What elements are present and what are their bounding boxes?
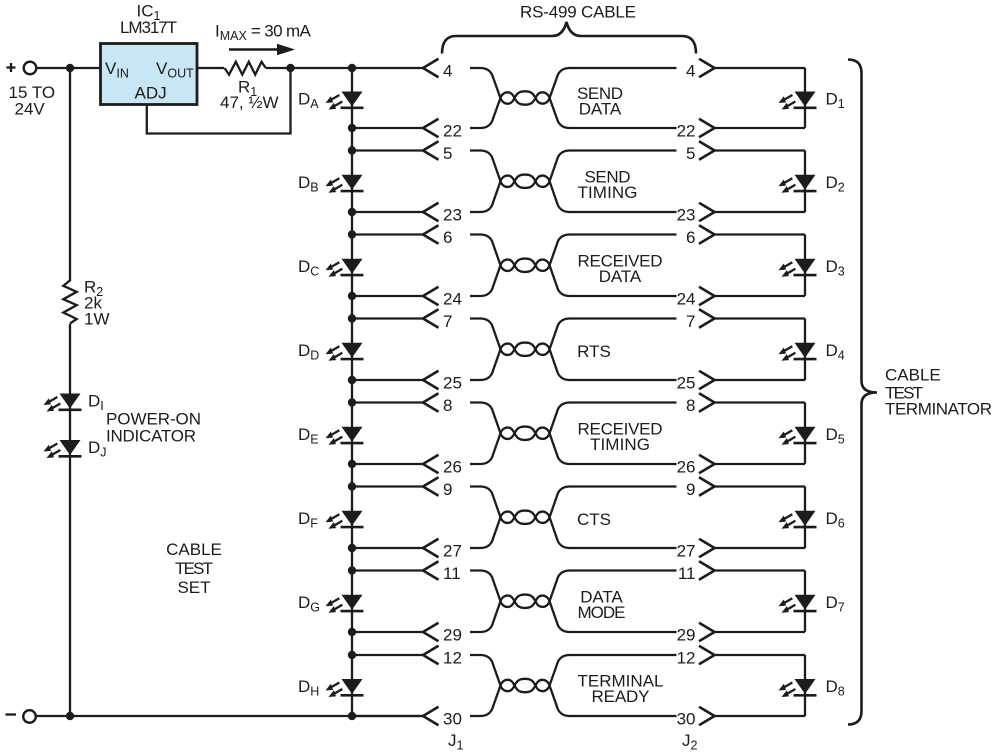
connector J1 pin 9 arrow	[423, 477, 439, 495]
node bus pin 4	[348, 64, 356, 72]
connector J2 pin 27 arrow	[699, 539, 715, 557]
svg-text:READY: READY	[592, 687, 650, 706]
wire J2 pin 22 to terminator	[714, 127, 805, 129]
svg-text:D3: D3	[826, 257, 845, 279]
svg-text:7: 7	[443, 312, 452, 331]
connector J1 pin 29 arrow	[423, 623, 439, 641]
wire J1 pin 22	[352, 127, 423, 129]
svg-text:8: 8	[443, 396, 452, 415]
svg-text:DE: DE	[298, 425, 319, 447]
connector J2 pin 5 arrow	[699, 141, 715, 159]
LED DE	[324, 427, 364, 448]
node bus pin 8	[348, 398, 356, 406]
svg-text:IMAX = 30 mA: IMAX = 30 mA	[215, 22, 311, 44]
brace CABLE TEST TERMINATOR	[848, 60, 877, 725]
node bus pin 25	[348, 376, 356, 384]
svg-text:SET: SET	[177, 578, 210, 597]
svg-text:DA: DA	[298, 90, 319, 112]
label channel 8 TERMINAL READY	[578, 672, 664, 707]
wire J2 pin 7 to terminator	[714, 317, 805, 319]
wire to J2 pin 5	[569, 149, 677, 151]
wire terminator vertical channel 6	[804, 487, 806, 549]
node bus pin 22	[348, 124, 356, 132]
svg-text:J2: J2	[682, 731, 698, 753]
LED DG	[324, 595, 364, 616]
svg-text:CABLE: CABLE	[166, 540, 222, 559]
svg-text:8: 8	[686, 396, 695, 415]
svg-text:ADJ: ADJ	[135, 84, 167, 103]
wire to J2 pin 23	[569, 211, 677, 213]
svg-text:D1: D1	[826, 90, 845, 112]
wire J2 pin 8 to terminator	[714, 401, 805, 403]
svg-text:LM317T: LM317T	[120, 18, 177, 37]
connector J2 pin 11 arrow	[699, 561, 715, 579]
wire J1 pin 11	[352, 569, 423, 571]
LED DC	[324, 259, 364, 280]
connector J1 pin 4 arrow	[423, 59, 439, 77]
connector J2 pin 9 arrow	[699, 477, 715, 495]
svg-text:DF: DF	[298, 509, 318, 531]
LED DI	[42, 394, 82, 415]
connector J1 pin 27 arrow	[423, 539, 439, 557]
connector J1 pin 26 arrow	[423, 455, 439, 473]
svg-text:RTS: RTS	[577, 342, 611, 361]
wire J2 pin 26 to terminator	[714, 463, 805, 465]
connector J2 pin 24 arrow	[699, 287, 715, 305]
LED DA	[324, 92, 364, 113]
wire J1 pin 9	[352, 485, 423, 487]
LED DH	[324, 679, 364, 700]
label channel 2 SEND TIMING	[578, 167, 638, 202]
wire bottom return	[36, 715, 423, 717]
svg-text:23: 23	[677, 205, 696, 224]
svg-text:4: 4	[686, 61, 695, 80]
wire J2 pin 27 to terminator	[714, 547, 805, 549]
svg-text:INDICATOR: INDICATOR	[106, 427, 196, 446]
wire J2 pin 5 to terminator	[714, 149, 805, 151]
connector J2 pin 26 arrow	[699, 455, 715, 473]
wire J1 pin 7	[352, 317, 423, 319]
svg-text:D7: D7	[826, 593, 845, 615]
wire J2 pin 11 to terminator	[714, 569, 805, 571]
svg-text:24: 24	[443, 289, 462, 308]
svg-text:7: 7	[686, 312, 695, 331]
wire twisted pair channel 4	[470, 319, 570, 381]
svg-text:TIMING: TIMING	[578, 183, 638, 202]
op-amp regulator IC1 LM317T box	[101, 44, 198, 105]
node bus pin 24	[348, 292, 356, 300]
svg-text:D5: D5	[826, 425, 845, 447]
connector J1 pin 12 arrow	[423, 646, 439, 664]
wire J2 pin 24 to terminator	[714, 295, 805, 297]
node bottom rail junction	[66, 712, 74, 720]
wire J1 pin 4	[352, 67, 423, 69]
svg-text:5: 5	[443, 144, 452, 163]
wire IC VOUT to R1	[197, 67, 224, 69]
LED DD	[324, 343, 364, 364]
wire to J2 pin 6	[569, 233, 677, 235]
LED D7	[777, 595, 817, 616]
svg-text:DATA: DATA	[579, 100, 622, 119]
wire to J2 pin 8	[569, 401, 677, 403]
terminal minus (input -)	[6, 710, 36, 723]
svg-text:27: 27	[443, 541, 462, 560]
wire J2 pin 30 to terminator	[714, 715, 805, 717]
wire twisted pair channel 7	[470, 571, 570, 633]
terminal plus (input +)	[7, 62, 37, 75]
connector J2 pin 12 arrow	[699, 646, 715, 664]
wire J2 pin 4 to terminator	[714, 67, 805, 69]
svg-text:TERMINATOR: TERMINATOR	[885, 400, 992, 419]
svg-text:DATA: DATA	[599, 267, 642, 286]
svg-text:DC: DC	[298, 257, 319, 279]
node bus pin 6	[348, 230, 356, 238]
wire R1 to LED bus	[266, 67, 352, 69]
current direction arrow	[229, 44, 295, 55]
wire to J2 pin 26	[569, 463, 677, 465]
wire terminator vertical channel 7	[804, 571, 806, 633]
connector J2 pin 25 arrow	[699, 371, 715, 389]
resistor R2 zigzag	[63, 280, 76, 323]
wire J1 pin 26	[352, 463, 423, 465]
label CABLE TEST SET	[166, 540, 222, 597]
connector J1 pin 5 arrow	[423, 141, 439, 159]
connector J1 pin 22 arrow	[423, 119, 439, 137]
wire to J2 pin 7	[569, 317, 677, 319]
svg-text:DJ: DJ	[88, 438, 107, 460]
label channel 3 RECEIVED DATA	[578, 251, 663, 286]
svg-text:DD: DD	[298, 341, 319, 363]
resistor R1 zigzag	[225, 62, 266, 75]
svg-text:29: 29	[443, 625, 462, 644]
brace RS-499 CABLE	[442, 22, 696, 54]
wire to J2 pin 25	[569, 379, 677, 381]
wire J2 pin 25 to terminator	[714, 379, 805, 381]
wire J2 pin 9 to terminator	[714, 485, 805, 487]
label CABLE TEST TERMINATOR	[885, 366, 992, 419]
svg-text:4: 4	[443, 61, 452, 80]
svg-text:25: 25	[443, 373, 462, 392]
wire left rail lower	[69, 324, 71, 716]
node bus pin 26	[348, 460, 356, 468]
wire to J2 pin 27	[569, 547, 677, 549]
label 15 TO 24V	[9, 83, 56, 119]
LED D8	[777, 679, 817, 700]
node bus pin 23	[348, 208, 356, 216]
svg-text:DB: DB	[298, 173, 319, 195]
svg-text:47, ½W: 47, ½W	[220, 93, 279, 112]
svg-text:23: 23	[443, 205, 462, 224]
node bus pin 27	[348, 544, 356, 552]
wire to J2 pin 22	[569, 127, 677, 129]
node bus pin 11	[348, 566, 356, 574]
wire to J2 pin 30	[569, 715, 677, 717]
wire to J2 pin 9	[569, 485, 677, 487]
wire J1 pin 30	[352, 715, 423, 717]
wire J1 pin 29	[352, 631, 423, 633]
label POWER-ON INDICATOR	[106, 410, 201, 446]
node bus pin 9	[348, 482, 356, 490]
wire J1 pin 27	[352, 547, 423, 549]
connector J2 pin 30 arrow	[699, 707, 715, 725]
svg-text:6: 6	[443, 228, 452, 247]
LED D5	[777, 427, 817, 448]
node ADJ feedback junction	[286, 64, 294, 72]
label channel 5 RECEIVED TIMING	[578, 419, 663, 454]
node bus pin 12	[348, 651, 356, 659]
wire terminator vertical channel 4	[804, 319, 806, 381]
label R2 2k 1W	[84, 278, 110, 329]
LED D4	[777, 343, 817, 364]
svg-text:CABLE: CABLE	[885, 366, 941, 385]
wire J2 pin 6 to terminator	[714, 233, 805, 235]
connector J1 pin 24 arrow	[423, 287, 439, 305]
wire LED bus vertical J1	[351, 68, 353, 716]
svg-text:26: 26	[443, 457, 462, 476]
svg-text:22: 22	[677, 121, 696, 140]
svg-text:11: 11	[443, 564, 461, 583]
wire twisted pair channel 6	[470, 487, 570, 549]
connector J1 pin 11 arrow	[423, 561, 439, 579]
svg-text:DG: DG	[298, 593, 320, 615]
svg-text:27: 27	[677, 541, 696, 560]
LED D2	[777, 175, 817, 196]
node supply/rail junction	[66, 64, 74, 72]
wire J2 pin 12 to terminator	[714, 654, 805, 656]
svg-text:D8: D8	[826, 677, 845, 699]
wire supply input to IC VIN	[37, 67, 100, 69]
LED D6	[777, 511, 817, 532]
svg-text:1W: 1W	[84, 310, 110, 329]
svg-text:9: 9	[443, 480, 452, 499]
svg-text:24V: 24V	[15, 100, 46, 119]
svg-text:D2: D2	[826, 173, 845, 195]
wire twisted pair channel 3	[470, 235, 570, 297]
svg-text:J1: J1	[448, 731, 464, 753]
wire J1 pin 12	[352, 654, 423, 656]
svg-text:22: 22	[443, 121, 462, 140]
svg-text:25: 25	[677, 373, 696, 392]
svg-text:TIMING: TIMING	[590, 435, 650, 454]
LED DF	[324, 511, 364, 532]
connector J2 pin 4 arrow	[699, 59, 715, 77]
wire terminator vertical channel 2	[804, 151, 806, 213]
wire left rail	[69, 68, 71, 281]
label channel 1 SEND DATA	[577, 84, 623, 119]
connector J2 pin 23 arrow	[699, 203, 715, 221]
LED D1	[777, 92, 817, 113]
svg-text:30: 30	[677, 709, 696, 728]
label channel 7 DATA MODE	[578, 587, 626, 622]
connector J1 pin 6 arrow	[423, 225, 439, 243]
connector J1 pin 8 arrow	[423, 393, 439, 411]
LED D3	[777, 259, 817, 280]
wire to J2 pin 29	[569, 631, 677, 633]
connector J2 pin 8 arrow	[699, 393, 715, 411]
svg-text:D6: D6	[826, 509, 845, 531]
wire to J2 pin 24	[569, 295, 677, 297]
wire to J2 pin 11	[569, 569, 677, 571]
wire to J2 pin 4	[569, 67, 677, 69]
wire J1 pin 24	[352, 295, 423, 297]
wire twisted pair channel 2	[470, 151, 570, 213]
svg-text:5: 5	[686, 144, 695, 163]
wire terminator vertical channel 5	[804, 403, 806, 465]
wire to J2 pin 12	[569, 654, 677, 656]
svg-text:29: 29	[677, 625, 696, 644]
svg-text:TEST: TEST	[175, 559, 213, 578]
svg-text:6: 6	[686, 228, 695, 247]
connector J2 pin 7 arrow	[699, 309, 715, 327]
connector J1 pin 7 arrow	[423, 309, 439, 327]
wire J1 pin 8	[352, 401, 423, 403]
svg-text:D4: D4	[826, 341, 845, 363]
svg-text:9: 9	[686, 480, 695, 499]
connector J1 pin 25 arrow	[423, 371, 439, 389]
svg-text:26: 26	[677, 457, 696, 476]
wire terminator vertical channel 1	[804, 68, 806, 128]
connector J1 pin 30 arrow	[423, 707, 439, 725]
connector J2 pin 6 arrow	[699, 225, 715, 243]
svg-text:30: 30	[443, 709, 462, 728]
svg-text:12: 12	[677, 648, 696, 667]
wire J2 pin 23 to terminator	[714, 211, 805, 213]
connector J2 pin 22 arrow	[699, 119, 715, 137]
connector J1 pin 23 arrow	[423, 203, 439, 221]
wire J2 pin 29 to terminator	[714, 631, 805, 633]
node bus pin 30	[348, 712, 356, 720]
node bus pin 29	[348, 628, 356, 636]
wire twisted pair channel 5	[470, 403, 570, 465]
wire terminator vertical channel 8	[804, 655, 806, 716]
svg-text:MODE: MODE	[578, 603, 626, 622]
svg-text:RS-499 CABLE: RS-499 CABLE	[520, 3, 636, 22]
wire twisted pair channel 1	[470, 68, 570, 128]
LED DJ	[42, 440, 82, 461]
connector J2 pin 29 arrow	[699, 623, 715, 641]
svg-text:DH: DH	[298, 677, 319, 699]
wire terminator vertical channel 3	[804, 235, 806, 297]
wire J1 pin 6	[352, 233, 423, 235]
wire ADJ feedback	[147, 68, 291, 134]
svg-text:24: 24	[677, 289, 696, 308]
node bus pin 5	[348, 146, 356, 154]
wire J1 pin 5	[352, 149, 423, 151]
svg-text:DI: DI	[88, 392, 104, 414]
LED DB	[324, 175, 364, 196]
svg-text:12: 12	[443, 648, 462, 667]
wire twisted pair channel 8	[470, 655, 570, 716]
svg-text:CTS: CTS	[577, 510, 611, 529]
svg-text:11: 11	[678, 564, 696, 583]
node bus pin 7	[348, 314, 356, 322]
wire J1 pin 25	[352, 379, 423, 381]
wire J1 pin 23	[352, 211, 423, 213]
